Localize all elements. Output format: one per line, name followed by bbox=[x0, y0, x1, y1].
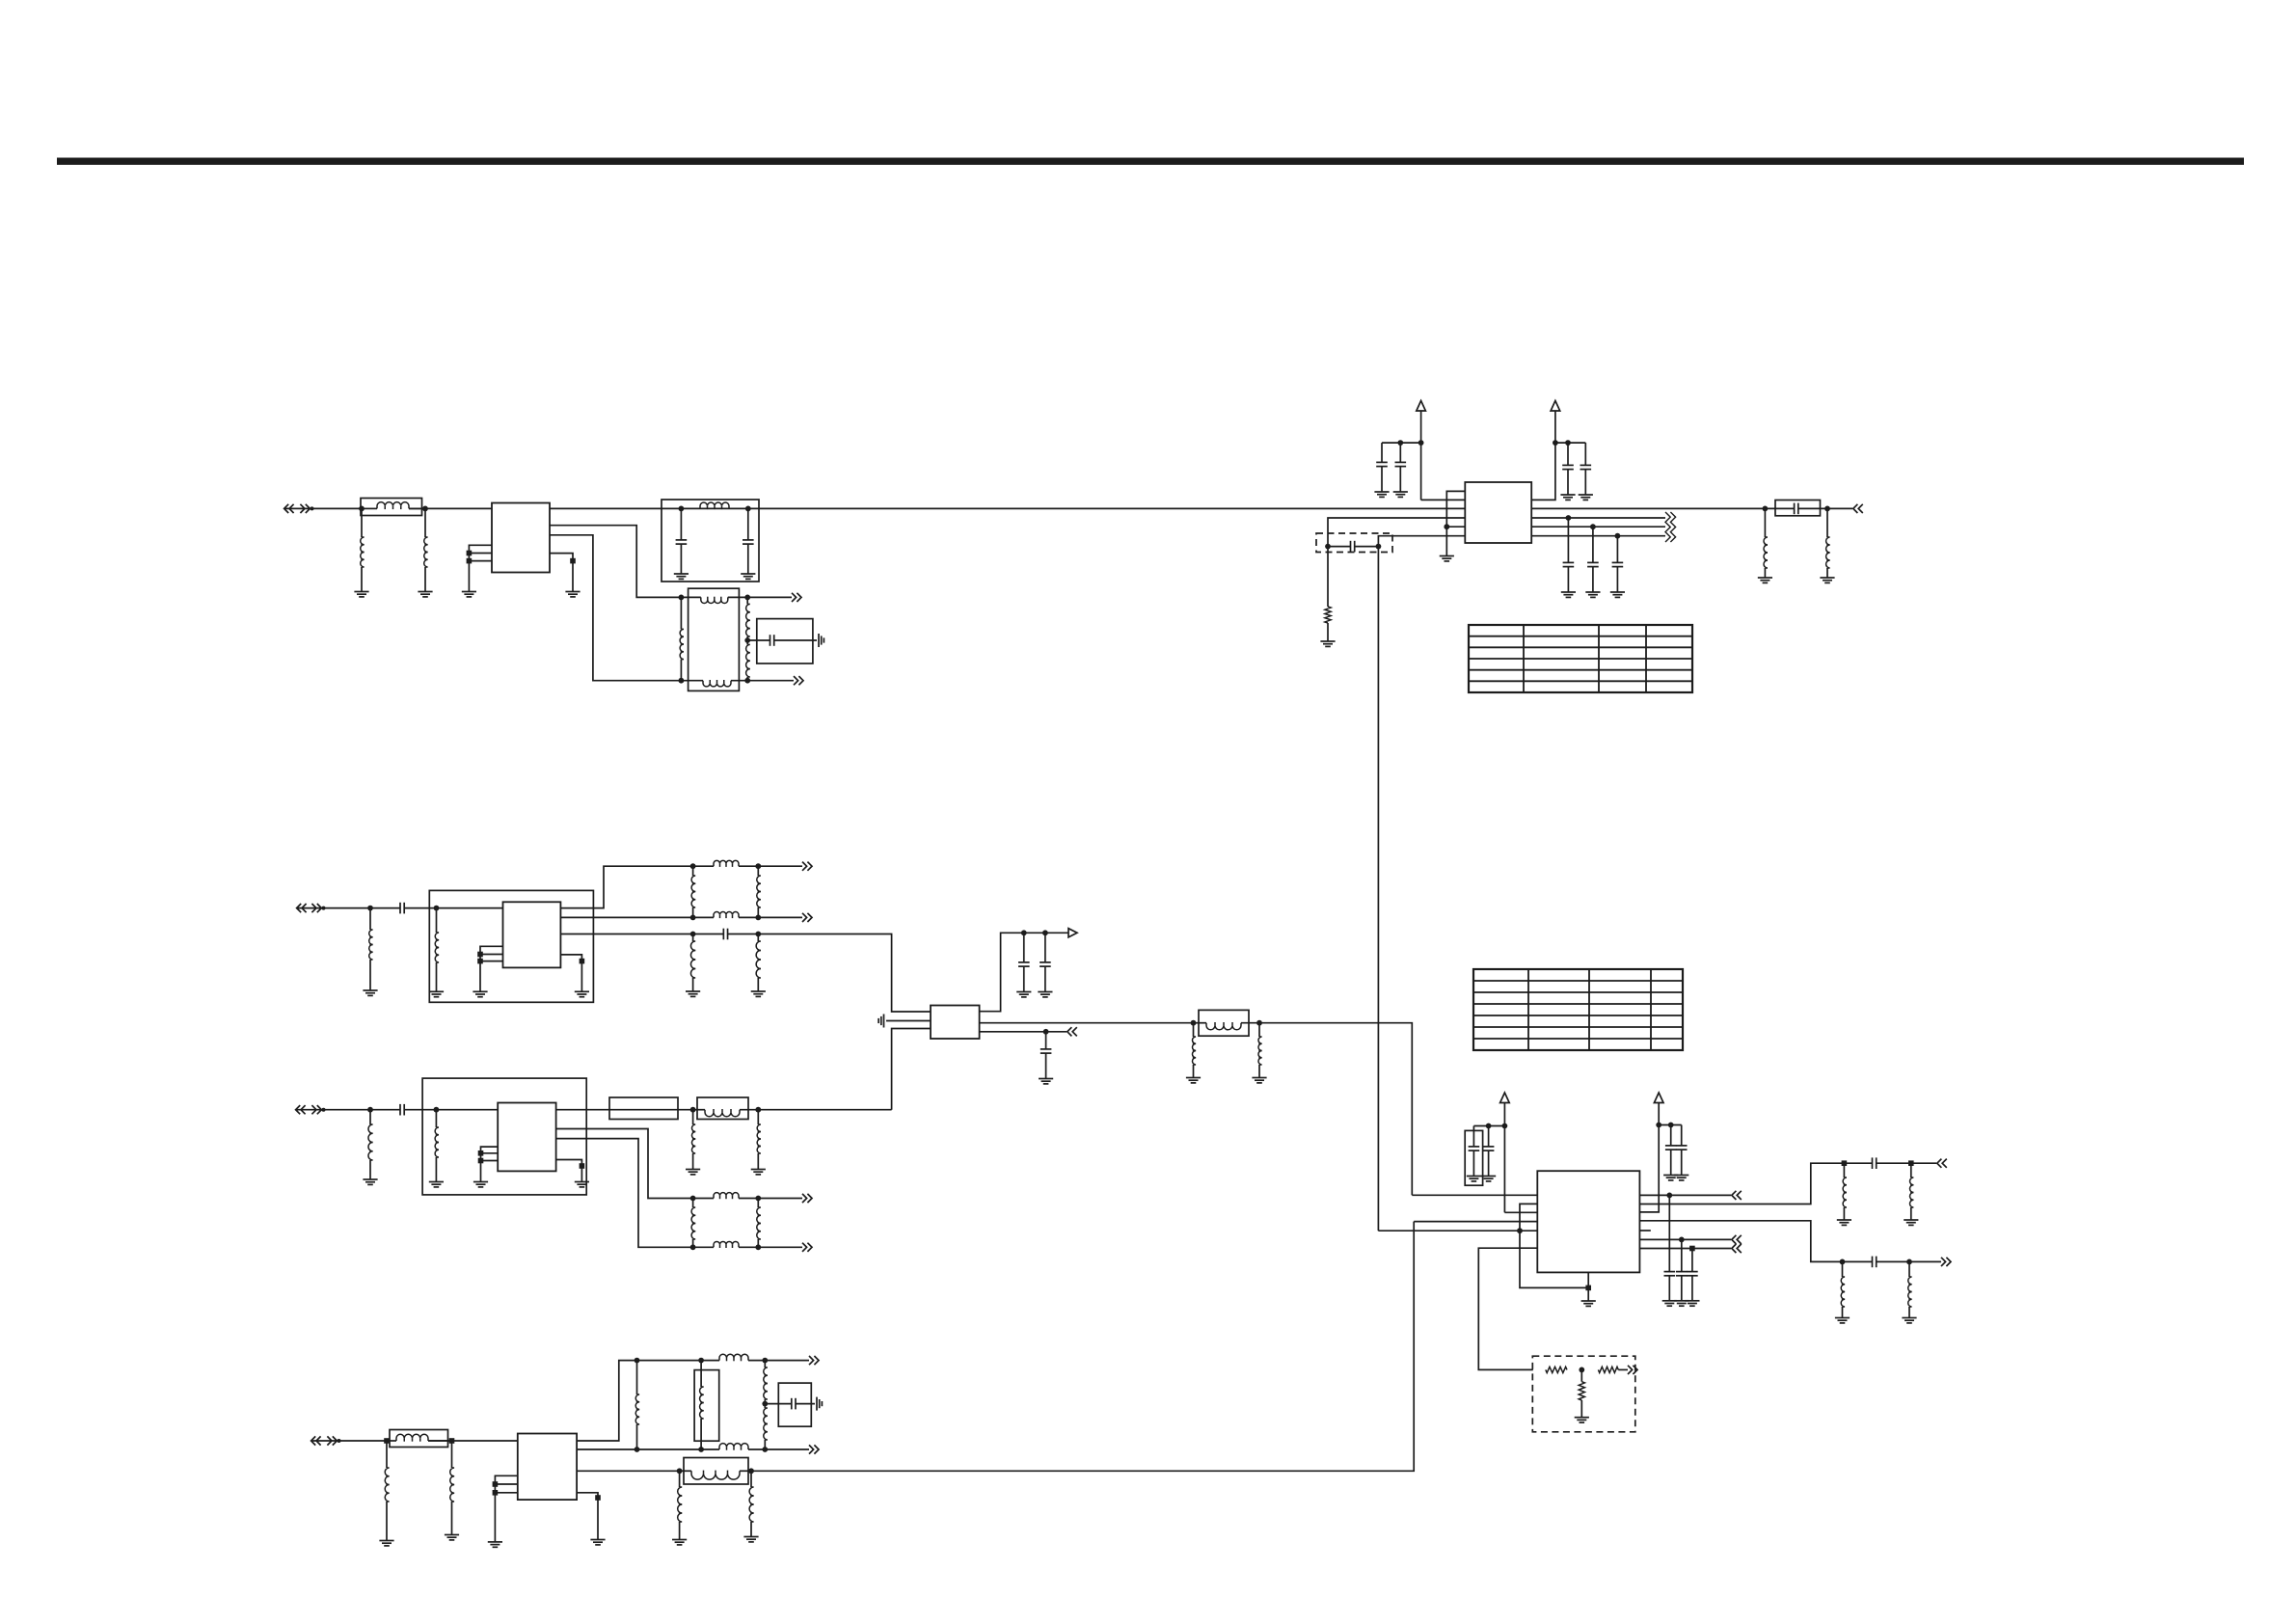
junction bbox=[1376, 544, 1382, 550]
inductor FL6-L1 bbox=[693, 1193, 759, 1200]
junction bbox=[744, 678, 750, 684]
wire (AGC net to U2) bbox=[1328, 518, 1465, 547]
junction bbox=[679, 595, 685, 601]
junction bbox=[1666, 1193, 1672, 1199]
connector (off-page) bbox=[296, 1105, 326, 1114]
ground bbox=[1902, 1318, 1916, 1323]
inductor FL3-L bbox=[1194, 1022, 1260, 1030]
wire bbox=[339, 1440, 388, 1442]
inductor L7 bbox=[690, 934, 695, 992]
ground bbox=[429, 991, 444, 996]
junction bbox=[755, 1196, 761, 1202]
ground bbox=[1038, 992, 1052, 997]
connector (off-page) bbox=[1067, 1027, 1077, 1036]
ground bbox=[473, 1182, 488, 1187]
inductor FL1-L bbox=[700, 502, 729, 509]
ground bbox=[1374, 492, 1389, 497]
connector (off-page) bbox=[1941, 1258, 1951, 1266]
wire bbox=[480, 954, 503, 956]
wire (to U5 riser) bbox=[751, 1222, 1414, 1472]
inductor L22 bbox=[1908, 1261, 1912, 1317]
junction bbox=[679, 506, 685, 512]
wire bbox=[550, 507, 1465, 509]
connector (off-page) bbox=[1732, 1244, 1742, 1253]
junction bbox=[434, 906, 440, 911]
junction bbox=[1502, 1123, 1508, 1129]
capacitor C-o2 bbox=[1843, 1257, 1910, 1268]
ground bbox=[686, 1170, 700, 1175]
junction bbox=[1585, 1286, 1591, 1291]
junction bbox=[762, 1447, 768, 1452]
IC U7 (demodulator) bbox=[1537, 1171, 1639, 1272]
inductor T2 middle bbox=[700, 1361, 704, 1449]
ground bbox=[445, 1535, 459, 1540]
junction bbox=[493, 1481, 499, 1487]
wire bbox=[436, 1109, 498, 1111]
crystal Y2 network bbox=[778, 1383, 811, 1426]
wire bbox=[1421, 499, 1466, 501]
capacitor Y1-C bbox=[747, 635, 817, 646]
wire bbox=[758, 1246, 802, 1248]
filter FL4 (SAW) bbox=[609, 1097, 678, 1120]
ground bbox=[590, 1540, 605, 1545]
junction bbox=[755, 1244, 761, 1250]
junction bbox=[595, 1495, 601, 1501]
wire bbox=[886, 1020, 931, 1022]
ground bbox=[1662, 1301, 1677, 1306]
wire bbox=[1377, 553, 1379, 1232]
IC U2 (tuner front-end) bbox=[1465, 482, 1531, 543]
ground bbox=[488, 1542, 502, 1547]
inductor FL6-L2 bbox=[693, 1241, 759, 1248]
wire bbox=[758, 1198, 802, 1200]
ground bbox=[1674, 1301, 1688, 1306]
wire bbox=[1639, 1248, 1731, 1250]
wire bbox=[765, 1360, 809, 1362]
inductor L10 bbox=[1258, 1023, 1262, 1078]
capacitor C-out bbox=[1687, 1249, 1698, 1301]
power arrow bbox=[1654, 1093, 1663, 1103]
inductor FL7-L bbox=[680, 1471, 751, 1480]
wire (IF to U5) bbox=[1259, 1023, 1412, 1196]
wire (U1 to T1 pri+) bbox=[550, 526, 681, 598]
wire bbox=[1639, 1230, 1650, 1232]
ground bbox=[1585, 592, 1600, 597]
junction bbox=[478, 1158, 484, 1164]
inductor FL2-L1 bbox=[693, 860, 759, 867]
ground bbox=[354, 592, 368, 597]
ground bbox=[565, 592, 580, 597]
wire bbox=[480, 961, 503, 962]
capacitor C-dec bbox=[1676, 1125, 1688, 1176]
wire bbox=[409, 507, 425, 509]
wire bbox=[980, 1031, 1046, 1033]
junction bbox=[1763, 506, 1769, 512]
wire bbox=[1531, 535, 1665, 537]
junction bbox=[762, 1358, 768, 1364]
capacitor C-dec bbox=[1483, 1126, 1495, 1177]
junction bbox=[690, 863, 696, 869]
power arrow bbox=[1551, 401, 1560, 412]
wire bbox=[980, 1022, 1194, 1024]
capacitor C-dec bbox=[1040, 933, 1051, 991]
wire bbox=[1531, 526, 1665, 528]
junction bbox=[1590, 524, 1596, 529]
junction bbox=[1021, 930, 1027, 935]
junction bbox=[467, 558, 473, 564]
junction bbox=[635, 1447, 640, 1452]
wire bbox=[495, 1492, 517, 1494]
junction bbox=[690, 915, 696, 921]
inductor T1 right winding upper bbox=[746, 597, 750, 640]
capacitor C-out bbox=[1676, 1239, 1688, 1300]
junction bbox=[1908, 1160, 1914, 1166]
wire bbox=[1473, 1125, 1504, 1127]
wire bbox=[495, 1483, 517, 1485]
capacitor C-dec bbox=[1395, 443, 1407, 492]
ground bbox=[1904, 1220, 1918, 1225]
wire bbox=[1327, 623, 1329, 641]
junction bbox=[690, 1196, 696, 1202]
junction bbox=[449, 1438, 455, 1444]
wire bbox=[481, 1160, 499, 1162]
capacitor C bbox=[1040, 1032, 1052, 1079]
ground bbox=[1581, 1301, 1596, 1306]
wire (U5 out3) bbox=[556, 1139, 693, 1248]
wire bbox=[1911, 1162, 1936, 1164]
wire bbox=[1639, 1238, 1731, 1240]
junction bbox=[1906, 1259, 1912, 1265]
wire bbox=[560, 916, 692, 918]
inductor T1 top winding bbox=[681, 597, 747, 604]
wire (U1 pin) bbox=[550, 554, 573, 592]
inductor L9 bbox=[1192, 1023, 1196, 1078]
inductor FB1 coil bbox=[362, 502, 425, 509]
wire bbox=[758, 916, 802, 918]
ground bbox=[473, 991, 487, 996]
wire bbox=[1587, 1272, 1589, 1301]
ground bbox=[741, 574, 755, 579]
ground bbox=[1758, 578, 1772, 582]
wire (to center riser) bbox=[758, 1109, 891, 1111]
junction bbox=[1418, 440, 1424, 446]
wire bbox=[556, 1109, 693, 1111]
inductor T2 top bbox=[701, 1354, 765, 1361]
wire bbox=[1909, 1260, 1941, 1262]
ground bbox=[1320, 641, 1335, 646]
wire bbox=[1639, 1194, 1731, 1196]
capacitor C-dec bbox=[1376, 443, 1388, 492]
junction bbox=[1517, 1228, 1523, 1233]
wire (U7 to attenuator) bbox=[1478, 1248, 1537, 1369]
ground bbox=[575, 991, 589, 996]
junction bbox=[744, 595, 750, 601]
junction bbox=[698, 1358, 704, 1364]
inductor L16 bbox=[450, 1441, 454, 1535]
ground bbox=[379, 1541, 393, 1546]
ground bbox=[672, 1540, 687, 1545]
net arrow bbox=[1068, 929, 1077, 937]
junction bbox=[467, 551, 473, 556]
ground bbox=[1837, 1220, 1851, 1225]
ground bbox=[674, 574, 689, 579]
junction bbox=[493, 1490, 499, 1496]
inductor T2 bottom bbox=[701, 1444, 765, 1450]
wire bbox=[481, 1152, 499, 1154]
wire bbox=[452, 1440, 518, 1442]
wire bbox=[577, 1470, 680, 1472]
wire bbox=[1827, 507, 1852, 509]
capacitor C-if bbox=[1612, 536, 1624, 592]
junction bbox=[1565, 440, 1571, 446]
junction bbox=[1668, 1123, 1674, 1128]
inductor L20 bbox=[1910, 1163, 1914, 1220]
wire bbox=[324, 907, 371, 909]
junction bbox=[359, 506, 365, 512]
wire (U7 Vcc) bbox=[1639, 1103, 1659, 1212]
inductor FL5 box bbox=[697, 1097, 748, 1120]
attenuator (dashed box) bbox=[1532, 1356, 1635, 1432]
wire bbox=[1555, 442, 1585, 444]
capacitor box (option) bbox=[1465, 1130, 1482, 1185]
wire bbox=[1327, 547, 1329, 607]
wire bbox=[747, 680, 794, 682]
ground bbox=[429, 1182, 444, 1187]
wire (U3 out1) bbox=[560, 866, 692, 907]
junction bbox=[1042, 930, 1048, 935]
inductor L2 bbox=[424, 508, 428, 591]
connector (off-page) bbox=[809, 1356, 819, 1365]
coupling cap box bbox=[1775, 501, 1821, 516]
connector (off-page) bbox=[1937, 1159, 1947, 1168]
capacitor C-in bbox=[370, 903, 437, 914]
power arrow bbox=[1500, 1093, 1510, 1103]
wire bbox=[469, 553, 492, 555]
filter FL3 bbox=[1199, 1010, 1249, 1036]
wire (U5 out2) bbox=[556, 1129, 693, 1199]
inductor T2 left bbox=[635, 1361, 639, 1449]
ground bbox=[1467, 1177, 1481, 1181]
junction bbox=[1824, 506, 1830, 512]
ground bbox=[1575, 1418, 1589, 1422]
resistor R1 bbox=[1325, 607, 1331, 623]
ground bbox=[363, 1179, 377, 1184]
wire bbox=[324, 1109, 371, 1111]
junction bbox=[1553, 440, 1558, 446]
wire bbox=[425, 507, 492, 509]
wire (U3 pin) bbox=[560, 955, 581, 991]
wire bbox=[1531, 507, 1765, 509]
junction bbox=[1689, 1246, 1695, 1252]
capacitor Y2-C bbox=[765, 1398, 815, 1410]
capacitor C-opt bbox=[1328, 541, 1378, 553]
table (empty) bbox=[1469, 625, 1692, 692]
wire bbox=[312, 507, 363, 509]
wire (U4 to lower net) bbox=[892, 1029, 931, 1110]
junction bbox=[422, 506, 428, 512]
header rule bbox=[57, 158, 2244, 165]
bus continuation mark bbox=[1665, 512, 1676, 542]
inductor L6 bbox=[435, 908, 439, 992]
junction bbox=[478, 1150, 484, 1156]
wire bbox=[1377, 547, 1379, 553]
inductor T2 box bbox=[694, 1370, 719, 1442]
capacitor C-dec bbox=[1580, 443, 1592, 495]
wire (U4 Vcc) bbox=[980, 933, 1068, 1011]
wire bbox=[560, 934, 692, 935]
IC U3 (balun) bbox=[503, 902, 561, 967]
ground bbox=[1252, 1078, 1266, 1083]
wire (U5 left pins) bbox=[481, 1147, 499, 1181]
resistor R3 bbox=[1598, 1367, 1618, 1372]
ground bbox=[1016, 992, 1031, 997]
connector (off-page) bbox=[1628, 1366, 1637, 1374]
junction bbox=[1444, 524, 1449, 529]
inductor FB2 coil bbox=[387, 1434, 452, 1441]
inductor L5 bbox=[369, 908, 373, 990]
wire bbox=[1382, 442, 1421, 444]
connector (off-page) bbox=[802, 1243, 812, 1252]
capacitor C-if bbox=[1587, 527, 1599, 592]
ground bbox=[1039, 1079, 1053, 1084]
junction bbox=[762, 1401, 768, 1407]
module box M1 bbox=[429, 890, 593, 1002]
wire bbox=[637, 1448, 702, 1450]
connector (off-page) bbox=[809, 1445, 819, 1453]
IC U5 (balun) bbox=[498, 1103, 555, 1172]
ground bbox=[1393, 492, 1408, 497]
junction bbox=[698, 1447, 704, 1452]
junction bbox=[367, 906, 373, 911]
wire bbox=[577, 1448, 636, 1450]
junction bbox=[1566, 515, 1572, 521]
option box (dashed) bbox=[1316, 533, 1392, 553]
inductor L19 bbox=[1843, 1163, 1847, 1220]
wire bbox=[1414, 1221, 1537, 1223]
wire (U7 outB) bbox=[1639, 1221, 1842, 1262]
crystal Y1 network bbox=[757, 619, 813, 663]
junction bbox=[690, 1244, 696, 1250]
ground bbox=[1579, 495, 1593, 500]
inductor L15 bbox=[385, 1441, 389, 1541]
wire bbox=[428, 1440, 452, 1442]
wire bbox=[1378, 1230, 1537, 1232]
junction bbox=[1615, 533, 1621, 539]
capacitor C-o1 bbox=[1844, 1157, 1910, 1169]
ground bbox=[1820, 578, 1834, 582]
IC U1 (balun/LNA) bbox=[492, 503, 550, 573]
wire bbox=[437, 907, 503, 909]
ground bbox=[462, 592, 476, 597]
ground bbox=[363, 990, 377, 995]
connector (off-page) bbox=[297, 904, 326, 912]
ground bbox=[1685, 1301, 1699, 1306]
wire (U6 left pins) bbox=[495, 1475, 517, 1542]
inductor L4 bbox=[1826, 508, 1830, 578]
inductor FL6-L3 bbox=[691, 1199, 695, 1248]
connector (off-page) bbox=[1732, 1235, 1742, 1244]
wire bbox=[1420, 411, 1422, 500]
ground bbox=[817, 1397, 822, 1411]
ground bbox=[1561, 592, 1576, 597]
wire bbox=[1503, 1103, 1505, 1213]
junction bbox=[690, 1107, 696, 1113]
filter FL1 bbox=[662, 500, 759, 582]
wire bbox=[1412, 1194, 1537, 1196]
module box M2 bbox=[422, 1078, 586, 1195]
wire bbox=[1531, 517, 1665, 519]
ground bbox=[751, 991, 766, 996]
connector (off-page) bbox=[802, 1194, 812, 1203]
connector (off-page) bbox=[802, 913, 812, 922]
ground bbox=[751, 1170, 766, 1175]
capacitor C-dec bbox=[1562, 443, 1574, 495]
junction bbox=[1579, 1367, 1584, 1373]
junction bbox=[744, 637, 750, 643]
junction bbox=[755, 932, 761, 937]
junction bbox=[755, 915, 761, 921]
wire (U1 left pins) bbox=[469, 545, 492, 591]
junction bbox=[1486, 1123, 1492, 1129]
wire (U1 to T1 pri-) bbox=[550, 535, 681, 681]
junction bbox=[755, 863, 761, 869]
wire (U5 pin) bbox=[556, 1160, 582, 1182]
ground bbox=[1674, 1176, 1688, 1180]
inductor FL2-L4 bbox=[757, 866, 761, 917]
junction bbox=[1325, 544, 1331, 550]
wire bbox=[1580, 1369, 1582, 1381]
inductor L8 bbox=[756, 934, 761, 992]
IC U4 (mixer) bbox=[931, 1006, 980, 1040]
connector (off-page) bbox=[1732, 1191, 1742, 1200]
capacitor C-if bbox=[1563, 518, 1575, 592]
wire (U7 gnd bus) bbox=[1520, 1204, 1588, 1287]
junction bbox=[580, 959, 585, 964]
ground bbox=[418, 592, 432, 597]
capacitor C-out bbox=[1664, 1195, 1676, 1300]
ferrite bead FB1 (boxed inductor) bbox=[361, 499, 422, 516]
wire bbox=[747, 596, 792, 598]
ferrite bead FB2 (boxed inductor) bbox=[390, 1430, 448, 1448]
inductor L18 bbox=[749, 1471, 754, 1536]
junction bbox=[755, 1107, 761, 1113]
capacitor C-ser bbox=[1765, 503, 1827, 515]
inductor L1 bbox=[361, 508, 365, 591]
inductor L3 bbox=[1764, 508, 1768, 578]
wire bbox=[1504, 1211, 1537, 1213]
wire bbox=[1580, 1400, 1582, 1418]
wire (U7 outA) bbox=[1639, 1163, 1844, 1204]
junction bbox=[1043, 1029, 1049, 1035]
inductor L13 bbox=[691, 1110, 695, 1170]
inductor FL2-L2 bbox=[693, 912, 759, 919]
capacitor C-in bbox=[370, 1104, 436, 1116]
inductor FL5-L bbox=[693, 1109, 759, 1117]
connector (off-page) bbox=[792, 593, 801, 602]
connector (off-page) bbox=[802, 862, 812, 871]
junction bbox=[690, 932, 696, 937]
junction bbox=[1397, 440, 1403, 446]
inductor T1 bottom winding bbox=[681, 680, 747, 687]
junction bbox=[745, 506, 751, 512]
inductor T2 right lower bbox=[764, 1404, 768, 1449]
junction bbox=[1840, 1259, 1846, 1265]
power arrow bbox=[1417, 401, 1426, 412]
wire bbox=[1046, 1031, 1067, 1033]
table (empty) bbox=[1473, 969, 1683, 1050]
junction bbox=[679, 678, 685, 684]
connector (off-page) bbox=[1853, 504, 1863, 513]
